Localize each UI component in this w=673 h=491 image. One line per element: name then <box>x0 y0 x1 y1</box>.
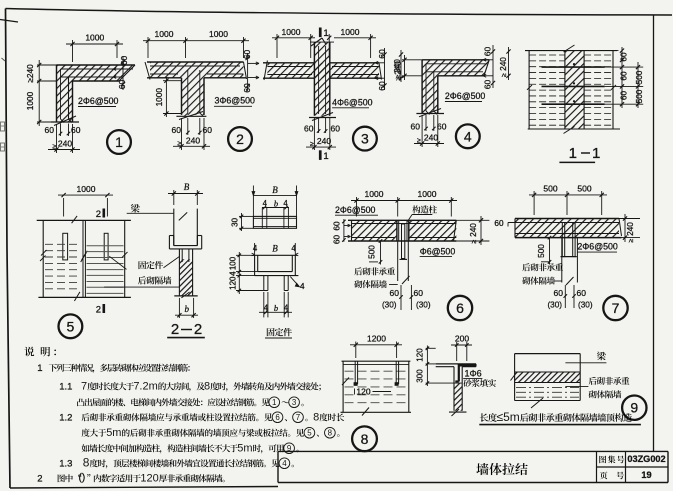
svg-text:B: B <box>184 182 190 192</box>
front view legs <box>263 276 265 291</box>
masonry courses left dashed <box>45 243 81 245</box>
caption length<=5m partition top construction <box>480 413 488 422</box>
svg-text:1000: 1000 <box>154 88 164 107</box>
B dimension <box>173 190 175 205</box>
detail number circle 7 <box>603 296 627 320</box>
svg-text:≥: ≥ <box>310 141 314 148</box>
masonry courses right solid <box>87 245 124 247</box>
bottom dims 60 (30) x2 <box>400 285 402 310</box>
bottom dims 60 (30) x2 <box>564 285 566 308</box>
svg-text:60: 60 <box>331 124 341 134</box>
svg-text:60: 60 <box>377 49 387 59</box>
top dimension 1000 <box>72 40 74 62</box>
wall outlines <box>147 61 244 63</box>
ground line below stem <box>176 115 206 117</box>
svg-text:240: 240 <box>186 135 200 145</box>
svg-text:8: 8 <box>204 381 210 393</box>
svg-text:4: 4 <box>264 304 269 313</box>
title text qiangti lajie <box>476 463 488 475</box>
left dims 240 and 1000 <box>37 64 57 66</box>
partition label <box>138 276 146 284</box>
svg-text:30: 30 <box>231 217 240 226</box>
svg-text:240: 240 <box>424 133 438 143</box>
wall outline <box>37 219 131 221</box>
svg-text:19: 19 <box>641 470 651 480</box>
svg-text:2: 2 <box>37 474 42 485</box>
svg-text:5m: 5m <box>237 443 252 455</box>
svg-text:60: 60 <box>242 50 252 60</box>
wall hatched L-shape <box>422 60 489 114</box>
wall outlines <box>348 219 456 221</box>
svg-text:7: 7 <box>296 413 300 422</box>
svg-text:1: 1 <box>569 145 577 162</box>
svg-text:1: 1 <box>323 151 328 162</box>
bent dowel bars <box>562 223 564 257</box>
svg-text:≥: ≥ <box>628 239 635 243</box>
svg-text:≥: ≥ <box>396 77 403 81</box>
svg-text:1: 1 <box>37 363 42 374</box>
svg-text:1000: 1000 <box>341 27 360 37</box>
hatched pilaster strip <box>565 51 584 129</box>
wall hatched L-shape <box>57 65 136 122</box>
svg-text:1000: 1000 <box>77 184 96 194</box>
svg-text:B: B <box>272 185 278 195</box>
anchor legs <box>181 249 183 262</box>
wall hatched band and crossing stem <box>267 63 379 78</box>
detail number circle 4 <box>456 124 480 148</box>
wall outlines <box>263 62 314 64</box>
ground line below wall <box>51 121 79 123</box>
dim 500 below wall <box>369 261 378 263</box>
left tick arrow <box>511 373 517 381</box>
top dimension 1000 <box>63 198 65 217</box>
page corner tick <box>0 20 18 23</box>
fixing piece channel in section <box>169 235 173 237</box>
top stem break <box>311 38 322 46</box>
svg-text:60: 60 <box>172 125 182 135</box>
left vertical dimension 1000 of stem <box>163 80 182 82</box>
svg-text:≥: ≥ <box>417 138 421 145</box>
svg-text:≥: ≥ <box>471 240 478 244</box>
svg-text:500: 500 <box>537 244 546 258</box>
fixing piece detail: plan view <box>253 216 296 228</box>
detail number circle 1 <box>107 130 131 154</box>
svg-text:240: 240 <box>393 61 403 75</box>
svg-text:60: 60 <box>414 288 424 298</box>
svg-text:60: 60 <box>377 81 387 91</box>
svg-text:500: 500 <box>368 245 377 259</box>
svg-text:120: 120 <box>140 473 158 485</box>
masonry course dashed lines <box>529 54 565 56</box>
labels partition two lines <box>354 267 362 275</box>
title block frame <box>278 450 668 452</box>
svg-text:60: 60 <box>333 221 342 231</box>
column jamb edges <box>396 220 398 241</box>
bottom ground line <box>309 117 336 119</box>
break marks <box>342 378 349 386</box>
detail number circle 5 <box>59 314 83 338</box>
svg-text:8: 8 <box>83 456 90 470</box>
svg-text:7: 7 <box>612 300 620 316</box>
svg-text:1000: 1000 <box>25 91 35 110</box>
svg-text:8: 8 <box>313 412 319 424</box>
svg-text:2: 2 <box>236 131 244 147</box>
svg-text:b: b <box>274 199 278 209</box>
caption <box>267 328 275 336</box>
detail number circle 6 <box>448 296 472 320</box>
section mark 1 bottom <box>319 150 322 160</box>
labels partition <box>522 263 530 271</box>
svg-text:1000: 1000 <box>365 189 384 199</box>
top dimension 1000 1000 <box>356 197 358 217</box>
detail number circle 8 <box>352 426 377 451</box>
svg-text:7.2m: 7.2m <box>133 381 157 393</box>
plan B dimension <box>252 192 254 216</box>
svg-text:4: 4 <box>228 271 237 276</box>
ground line below wall <box>416 113 444 115</box>
tie bar with left hook <box>508 222 619 224</box>
svg-text:3: 3 <box>292 398 297 407</box>
bottom dims 60 60 240 <box>187 118 189 135</box>
note 1.2 line 2 <box>82 429 90 437</box>
svg-text:500: 500 <box>577 184 591 194</box>
svg-text:4: 4 <box>263 199 268 208</box>
tie bars <box>352 223 457 225</box>
svg-text:1: 1 <box>115 134 123 150</box>
svg-text:B: B <box>272 244 278 254</box>
svg-text:240: 240 <box>58 139 72 149</box>
beam label <box>131 204 140 213</box>
svg-text:2Φ6@500: 2Φ6@500 <box>78 96 119 106</box>
top dimension 1200 <box>355 342 357 359</box>
svg-text:2Φ6@500: 2Φ6@500 <box>445 91 486 101</box>
joint double line <box>82 220 84 297</box>
svg-text:1000: 1000 <box>155 29 174 39</box>
wall band hatched <box>352 220 398 241</box>
tie bars 4phi6 <box>267 66 312 68</box>
svg-text:60: 60 <box>390 288 400 298</box>
svg-text:240: 240 <box>468 223 478 237</box>
svg-text:500: 500 <box>543 184 557 194</box>
svg-text:60: 60 <box>618 52 628 62</box>
svg-text:(30): (30) <box>382 300 397 309</box>
svg-text:60: 60 <box>618 71 628 81</box>
tie bars with hooks <box>354 361 356 384</box>
svg-text:4: 4 <box>300 281 305 291</box>
section mark 1 top <box>319 28 322 38</box>
svg-text:300: 300 <box>416 369 425 383</box>
svg-text:4: 4 <box>253 244 258 253</box>
page bottom border <box>10 487 278 489</box>
svg-text:60: 60 <box>304 124 314 134</box>
svg-text:1200: 1200 <box>367 334 386 344</box>
right end dims 60 240 60 <box>384 48 386 90</box>
svg-text:60: 60 <box>618 91 628 101</box>
svg-text:2: 2 <box>194 321 202 338</box>
wall stem outlines <box>453 367 455 411</box>
svg-text:1: 1 <box>592 145 600 162</box>
atlas number cell <box>599 456 606 464</box>
top dimension 1000 1000 <box>147 37 149 58</box>
svg-text:60: 60 <box>554 288 564 298</box>
svg-text:60: 60 <box>483 80 493 90</box>
right dim 240 <box>619 218 640 220</box>
svg-text:4: 4 <box>284 304 289 313</box>
svg-text:b: b <box>274 303 278 313</box>
svg-text:4Φ6@500: 4Φ6@500 <box>332 98 373 108</box>
beam outline with break <box>173 209 175 246</box>
svg-text:(30): (30) <box>578 300 593 309</box>
svg-text:(30): (30) <box>547 300 562 309</box>
fixing piece slots <box>63 233 68 260</box>
notes heading <box>24 347 34 357</box>
partition wall below <box>397 241 399 281</box>
bottom dims 60 60 240 <box>318 118 320 133</box>
svg-text:5m: 5m <box>106 427 121 439</box>
beam outline <box>515 353 581 355</box>
svg-text:8: 8 <box>328 429 333 438</box>
top dimension 1000 left and right <box>276 34 278 58</box>
leg 4 label with leader <box>290 277 299 287</box>
bottom line and break <box>515 400 581 402</box>
dash-dot course lines <box>516 386 579 388</box>
svg-text:500: 500 <box>634 70 644 84</box>
plan b dimension with 4 4 <box>262 207 289 209</box>
svg-text:1Φ6: 1Φ6 <box>465 369 482 379</box>
svg-text:1000: 1000 <box>282 27 301 37</box>
spine marks <box>2 58 6 61</box>
bent bar 1phi6 <box>459 365 476 381</box>
svg-text:60: 60 <box>242 83 252 93</box>
svg-text:60: 60 <box>494 219 504 228</box>
top dimension 500 500 <box>533 191 535 215</box>
fixing piece detail: front view channel <box>253 254 298 256</box>
svg-text:120: 120 <box>228 276 237 290</box>
svg-text:60: 60 <box>437 122 447 132</box>
svg-text:100: 100 <box>228 256 237 270</box>
bottom dims 60 60 240 <box>60 124 62 137</box>
svg-text:8: 8 <box>361 431 369 447</box>
right end dims 60/60 with arrows <box>247 53 249 91</box>
svg-text:≥240: ≥240 <box>25 64 35 83</box>
svg-text:7: 7 <box>81 381 87 393</box>
edge tick arrows <box>41 250 47 256</box>
label gouzaozhu <box>412 205 420 213</box>
left dims 120 300 <box>426 347 436 349</box>
svg-text:60: 60 <box>483 47 493 57</box>
tie bars 3phi6 <box>150 65 240 67</box>
top dimension 200 <box>456 342 458 361</box>
right end dims 60 240 60 <box>492 45 494 88</box>
dim 500 below <box>541 261 549 263</box>
note 1.1 line 2 <box>77 398 84 406</box>
partition labels <box>589 377 597 385</box>
pilaster break marks <box>564 45 575 52</box>
svg-text:1000: 1000 <box>85 33 104 43</box>
partition wall below hatched <box>179 259 192 296</box>
tie bars 2phi6 <box>426 63 487 65</box>
mortar zone boundary <box>426 382 463 384</box>
wall band hatched <box>515 219 619 238</box>
right dimensions 60 60 500 500 60 <box>584 50 618 52</box>
plan legs <box>261 208 263 229</box>
svg-text:120: 120 <box>416 348 425 362</box>
detail number circle 3 <box>353 127 377 151</box>
wall outline <box>342 360 411 362</box>
svg-text:240: 240 <box>498 57 508 71</box>
front view left dims 100 4 120 <box>236 254 255 256</box>
svg-text:03ZG002: 03ZG002 <box>627 454 665 464</box>
partition wall below <box>561 238 563 283</box>
tie bars 2phi6 in wall <box>61 68 134 70</box>
slab plate double line <box>436 363 476 365</box>
svg-text:1000: 1000 <box>418 189 437 199</box>
svg-text:Φ6@500: Φ6@500 <box>420 246 456 256</box>
detail number circle 9 <box>622 396 646 420</box>
svg-text:2Φ6@500: 2Φ6@500 <box>577 242 618 252</box>
svg-text:b: b <box>184 304 189 314</box>
svg-text:4: 4 <box>283 199 288 208</box>
masonry courses dashed <box>345 370 408 372</box>
edge arrows <box>527 85 532 90</box>
svg-text:60: 60 <box>119 56 129 66</box>
svg-text:2: 2 <box>96 209 101 220</box>
hatched top course band <box>515 372 581 383</box>
label mortar fill <box>463 379 471 387</box>
svg-text:9: 9 <box>630 400 638 416</box>
svg-text:(): () <box>79 473 86 484</box>
svg-text:500: 500 <box>634 89 644 103</box>
plan 30 dimension <box>239 215 253 217</box>
wall hatched band and stem <box>150 62 244 115</box>
svg-text:120: 120 <box>356 387 370 397</box>
page left border <box>6 9 11 489</box>
break marks <box>72 216 78 223</box>
svg-text:2: 2 <box>96 305 101 316</box>
svg-text:(30): (30) <box>416 300 431 309</box>
svg-text:60: 60 <box>117 80 127 90</box>
fixing piece label <box>139 261 147 269</box>
svg-text:5: 5 <box>67 318 75 334</box>
svg-text:6: 6 <box>275 413 280 422</box>
left end dims 60 60 <box>343 219 345 242</box>
svg-text:60: 60 <box>411 122 421 132</box>
svg-text:1: 1 <box>272 398 277 407</box>
partition wall below hatched <box>454 383 462 411</box>
detail number circle 2 <box>228 127 252 151</box>
svg-text:1000: 1000 <box>209 29 228 39</box>
120 label with leader <box>354 389 356 395</box>
beam label <box>597 352 606 361</box>
svg-text:60: 60 <box>333 235 342 245</box>
svg-text:60: 60 <box>45 125 55 135</box>
svg-text:240: 240 <box>625 222 635 236</box>
svg-text:≥: ≥ <box>501 73 508 77</box>
b dimension <box>178 298 180 318</box>
wall outlines <box>515 218 619 220</box>
svg-text:1.3: 1.3 <box>59 459 72 470</box>
svg-text:3: 3 <box>361 131 369 147</box>
page right border <box>653 15 655 452</box>
right end dims 60/60 <box>122 56 124 90</box>
bottom b dimension <box>263 292 265 317</box>
left dim 240 <box>402 59 422 61</box>
page number cell <box>600 472 608 480</box>
bottom dims 60 60 240 <box>425 115 427 131</box>
wall outlines <box>57 64 136 66</box>
svg-text:240: 240 <box>317 136 331 146</box>
svg-text:1.1: 1.1 <box>59 382 72 393</box>
svg-text:2: 2 <box>171 321 179 338</box>
svg-text:≤5m: ≤5m <box>497 410 520 424</box>
svg-text:60: 60 <box>577 288 587 298</box>
outer wall rectangle <box>525 50 617 52</box>
svg-text:≥: ≥ <box>178 141 182 148</box>
svg-text:2Φ6@500: 2Φ6@500 <box>335 205 376 215</box>
svg-text:1: 1 <box>323 28 328 39</box>
wall outlines <box>422 59 489 61</box>
svg-text:1.2: 1.2 <box>59 413 72 424</box>
svg-text:5: 5 <box>307 429 312 438</box>
svg-text:≥: ≥ <box>53 144 57 151</box>
column dowel bars <box>402 224 405 259</box>
svg-text:4: 4 <box>464 128 472 144</box>
svg-text:200: 200 <box>455 334 469 344</box>
page top border <box>6 9 673 16</box>
horizontal tie bars at 500 spacing <box>542 66 605 68</box>
note 1.2 line 3 <box>82 444 90 452</box>
svg-text:3Φ6@500: 3Φ6@500 <box>215 96 256 106</box>
svg-text:6: 6 <box>456 300 464 316</box>
right dim 240 <box>456 219 489 221</box>
svg-text:4: 4 <box>282 459 287 468</box>
